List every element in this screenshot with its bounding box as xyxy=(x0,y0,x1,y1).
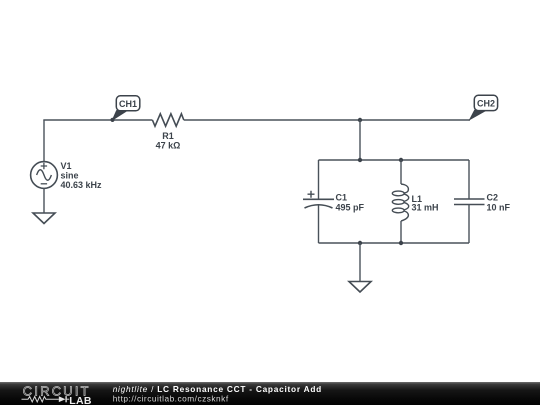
ground V1 xyxy=(33,213,55,224)
wire from V1 top to corner xyxy=(43,120,45,162)
svg-text:nightlite / LC Resonance CCT -: nightlite / LC Resonance CCT - Capacitor… xyxy=(113,384,322,394)
wire main horizontal right segment xyxy=(184,119,470,121)
svg-text:C1: C1 xyxy=(336,193,348,203)
wire bottom rail xyxy=(319,242,470,244)
wire L1 top lead xyxy=(400,160,402,184)
logo resistor zigzag xyxy=(22,397,59,402)
svg-text:47 kΩ: 47 kΩ xyxy=(156,140,181,150)
label R1 value xyxy=(156,131,181,150)
junction dot main wire xyxy=(358,118,362,122)
svg-text:CH1: CH1 xyxy=(119,99,137,109)
footer url line xyxy=(113,394,229,404)
svg-text:V1: V1 xyxy=(61,161,72,171)
wire C1 top lead xyxy=(318,160,320,199)
footer bar xyxy=(0,382,540,405)
logo LAB text xyxy=(69,395,92,405)
wire C2 bottom lead xyxy=(468,205,470,244)
ground tank xyxy=(349,282,371,293)
wire C2 top lead xyxy=(468,160,470,199)
wire C1 bottom lead xyxy=(318,206,320,244)
svg-text:C2: C2 xyxy=(487,193,499,203)
wire ground stem tank xyxy=(359,243,361,282)
wire L1 bottom lead xyxy=(400,221,402,243)
junction dot top rail L1 xyxy=(399,158,403,162)
junction dot bottom rail ground xyxy=(358,241,362,245)
flag CH2 xyxy=(470,95,498,119)
svg-text:LAB: LAB xyxy=(69,395,92,405)
wire main horizontal left segment xyxy=(44,119,152,122)
label L1 value xyxy=(412,194,439,213)
node CH1 anchor dot xyxy=(110,118,114,122)
svg-text:40.63 kHz: 40.63 kHz xyxy=(61,180,103,190)
label V1 value xyxy=(61,161,103,190)
wire feed to tank xyxy=(359,120,361,160)
wire top rail xyxy=(319,159,470,161)
flag CH1 xyxy=(113,96,140,120)
capacitor C2 xyxy=(454,199,485,205)
logo diode xyxy=(59,396,69,402)
inductor L1 xyxy=(392,184,408,221)
svg-text:31 mH: 31 mH xyxy=(412,203,439,213)
junction dot top rail feed xyxy=(358,158,362,162)
capacitor C1 xyxy=(303,191,334,208)
voltage source V1 xyxy=(31,162,58,189)
svg-text:sine: sine xyxy=(61,171,79,181)
label C1 value xyxy=(336,193,365,213)
junction dot bottom rail L1 xyxy=(399,241,403,245)
svg-text:http://circuitlab.com/czsknkf: http://circuitlab.com/czsknkf xyxy=(113,394,229,404)
svg-text:CH2: CH2 xyxy=(477,98,495,108)
wire V1 to ground xyxy=(43,188,45,213)
svg-text:495 pF: 495 pF xyxy=(336,203,365,213)
svg-text:10 nF: 10 nF xyxy=(487,203,511,213)
logo CIRCUIT text xyxy=(23,383,91,398)
footer title line xyxy=(113,384,322,394)
resistor R1 xyxy=(152,114,183,126)
label C2 value xyxy=(487,193,511,213)
